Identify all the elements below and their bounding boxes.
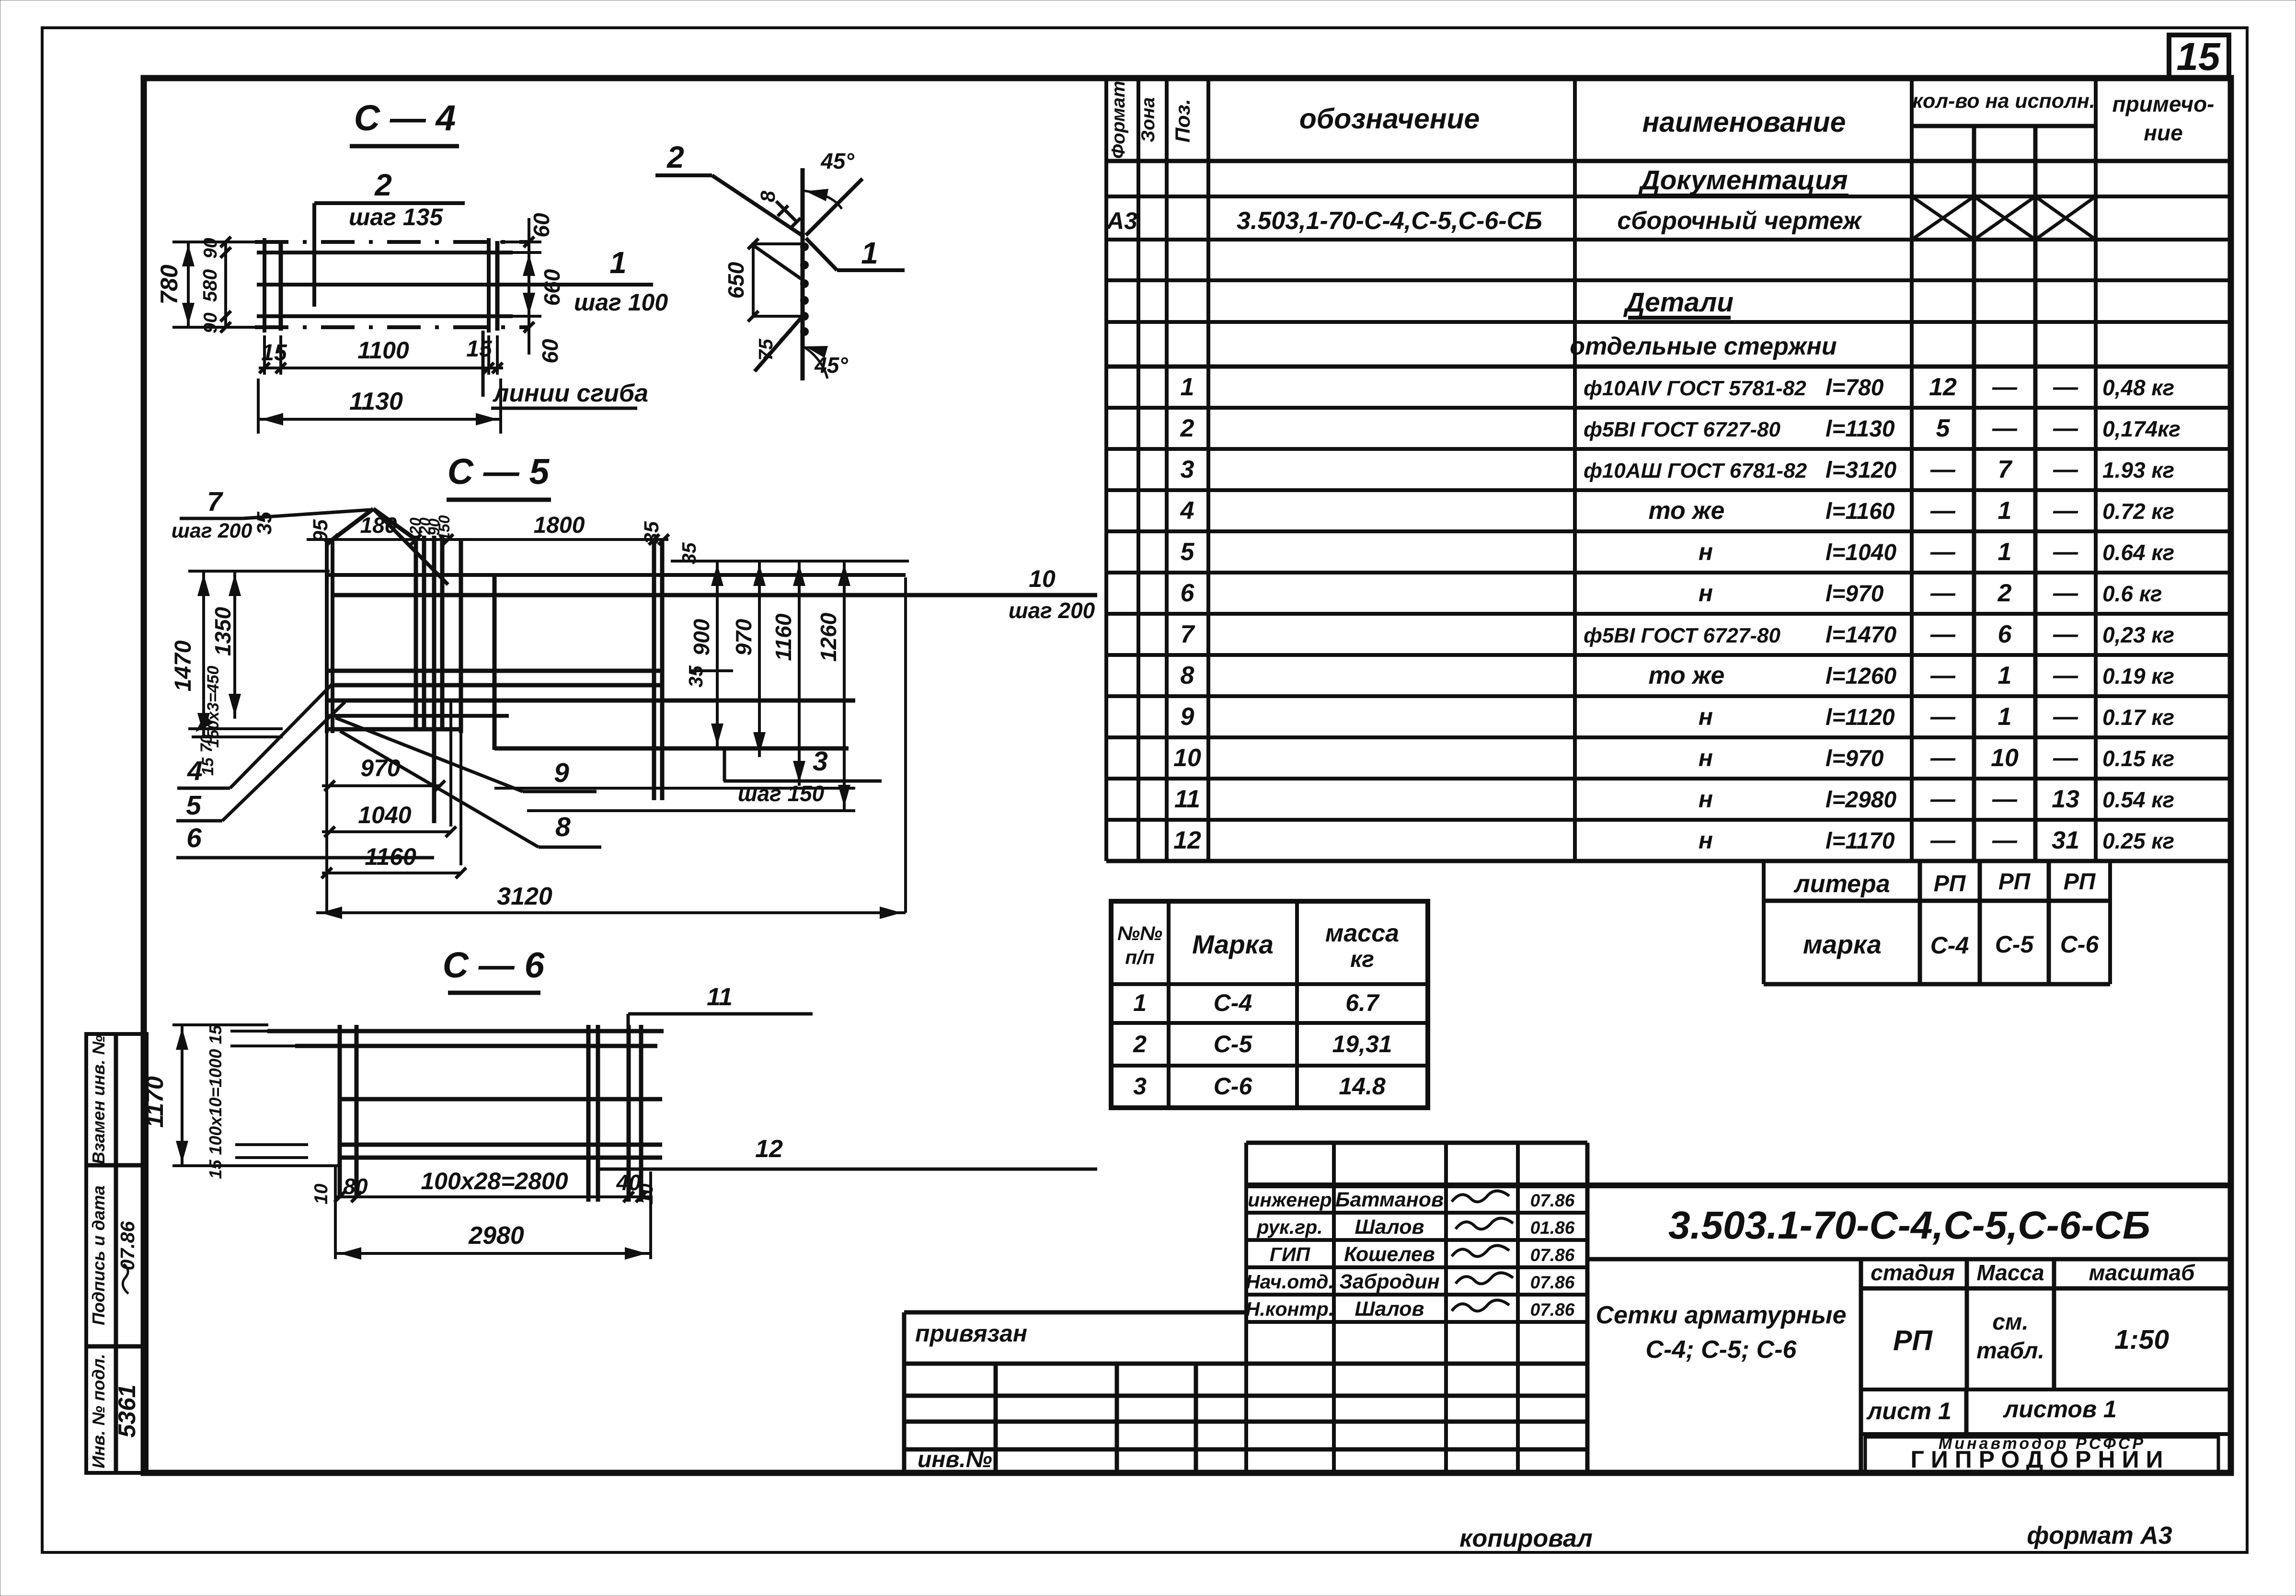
svg-text:3.503,1-70-С-4,С-5,С-6-СБ: 3.503,1-70-С-4,С-5,С-6-СБ <box>1237 207 1542 235</box>
svg-text:шаг 100: шаг 100 <box>574 289 668 316</box>
svg-text:отдельные стержни: отдельные стержни <box>1570 333 1837 360</box>
svg-text:780: 780 <box>156 264 183 305</box>
C-4 left dim chain 90-580-90 <box>224 242 227 327</box>
svg-text:90: 90 <box>200 312 221 333</box>
svg-text:—: — <box>2053 662 2078 689</box>
svg-text:1: 1 <box>1181 373 1194 401</box>
svg-text:Шалов: Шалов <box>1355 1297 1424 1320</box>
svg-text:0,48 кг: 0,48 кг <box>2102 375 2174 400</box>
svg-text:2: 2 <box>1180 414 1194 442</box>
svg-text:ф10АШ ГОСТ 6781-82: ф10АШ ГОСТ 6781-82 <box>1584 459 1807 482</box>
svg-text:l=970: l=970 <box>1825 746 1884 771</box>
organization box <box>1861 1432 2231 1436</box>
svg-text:1170: 1170 <box>141 1076 168 1128</box>
specification table grid <box>1104 78 1108 861</box>
svg-text:900: 900 <box>689 619 714 655</box>
C-4 mesh band: fold lines (dash-dot) <box>255 240 529 244</box>
svg-text:3: 3 <box>1181 456 1194 483</box>
svg-text:15: 15 <box>2176 35 2221 79</box>
svg-text:35: 35 <box>253 511 276 535</box>
svg-text:см.: см. <box>1992 1309 2029 1335</box>
svg-text:2980: 2980 <box>468 1222 524 1250</box>
svg-text:РП: РП <box>1934 871 1966 896</box>
svg-text:7: 7 <box>1181 620 1195 648</box>
title block top border <box>1246 1183 2231 1188</box>
svg-text:1: 1 <box>1998 703 2012 731</box>
svg-text:01.86: 01.86 <box>1530 1218 1575 1238</box>
svg-text:Детали: Детали <box>1623 287 1733 318</box>
svg-text:12: 12 <box>755 1135 783 1163</box>
svg-text:8: 8 <box>757 191 780 202</box>
svg-text:100х28=2800: 100х28=2800 <box>421 1168 568 1194</box>
C-6 left dim 1170 <box>172 1023 268 1026</box>
svg-text:сборочный чертеж: сборочный чертеж <box>1617 207 1862 235</box>
svg-text:1:50: 1:50 <box>2114 1324 2169 1355</box>
svg-text:l=1120: l=1120 <box>1825 705 1895 730</box>
C-6 bottom dim 2980 <box>334 1166 337 1259</box>
svg-text:ф5ВI ГОСТ 6727-80: ф5ВI ГОСТ 6727-80 <box>1584 624 1780 647</box>
svg-text:№№: №№ <box>1117 922 1162 944</box>
svg-text:—: — <box>2053 579 2078 607</box>
svg-text:Поз.: Поз. <box>1171 99 1194 142</box>
svg-text:—: — <box>1930 579 1956 607</box>
svg-text:0.15 кг: 0.15 кг <box>2102 746 2174 771</box>
svg-text:8: 8 <box>555 812 571 842</box>
C-5 right dim verticals 900 970 1160 1260 <box>671 560 909 563</box>
svg-text:11: 11 <box>707 983 733 1011</box>
svg-text:3120: 3120 <box>497 883 552 910</box>
svg-text:обозначение: обозначение <box>1299 103 1480 135</box>
svg-text:С-4: С-4 <box>1930 932 1969 959</box>
svg-text:—: — <box>2053 456 2078 483</box>
C-6 vertical bars <box>338 1025 342 1198</box>
svg-text:0,23 кг: 0,23 кг <box>2102 622 2174 647</box>
svg-text:литера: литера <box>1793 870 1890 898</box>
svg-text:—: — <box>2053 414 2078 442</box>
svg-text:2: 2 <box>374 168 392 202</box>
C-6 bottom dim row 1 <box>335 1195 651 1198</box>
svg-text:5361: 5361 <box>114 1384 140 1437</box>
svg-text:кол-во на исполн.: кол-во на исполн. <box>1912 90 2095 113</box>
svg-text:0.64 кг: 0.64 кг <box>2102 540 2174 565</box>
svg-text:н: н <box>1699 539 1713 565</box>
svg-text:l=970: l=970 <box>1825 581 1884 607</box>
svg-text:С — 5: С — 5 <box>448 451 550 492</box>
svg-text:—: — <box>1992 827 2018 854</box>
svg-text:10: 10 <box>1991 744 2019 772</box>
svg-text:8: 8 <box>1181 662 1194 689</box>
svg-text:Подпись и дата: Подпись и дата <box>89 1185 108 1325</box>
svg-text:1: 1 <box>1998 662 2012 689</box>
svg-text:С-4; С-5; С-6: С-4; С-5; С-6 <box>1646 1336 1797 1364</box>
svg-text:13: 13 <box>2052 785 2079 813</box>
svg-text:табл.: табл. <box>1976 1338 2044 1364</box>
svg-text:60: 60 <box>538 339 563 364</box>
C-4 right dim 60-660-60 <box>500 241 541 243</box>
svg-text:7: 7 <box>1998 456 2013 483</box>
svg-text:l=1470: l=1470 <box>1825 622 1896 648</box>
svg-text:наименование: наименование <box>1642 106 1846 138</box>
svg-text:п/п: п/п <box>1125 946 1154 968</box>
svg-text:35: 35 <box>685 665 707 688</box>
svg-text:0.72 кг: 0.72 кг <box>2102 499 2174 524</box>
svg-text:н: н <box>1699 786 1713 813</box>
svg-text:12: 12 <box>1929 373 1957 401</box>
svg-text:Забродин: Забродин <box>1339 1270 1440 1293</box>
svg-text:07.86: 07.86 <box>1530 1273 1575 1292</box>
svg-text:ф5ВI ГОСТ 6727-80: ф5ВI ГОСТ 6727-80 <box>1584 418 1780 441</box>
svg-text:45°: 45° <box>820 149 854 173</box>
svg-text:35: 35 <box>678 542 700 564</box>
svg-text:660: 660 <box>540 269 564 306</box>
lower-left grid of title block <box>904 1362 1587 1366</box>
svg-text:—: — <box>1992 414 2018 442</box>
svg-text:1: 1 <box>1998 497 2012 525</box>
svg-text:180: 180 <box>360 513 397 538</box>
svg-text:650: 650 <box>723 262 748 299</box>
svg-text:—: — <box>1930 662 1956 689</box>
C-4 leader 2 / shag 135 <box>314 201 465 205</box>
svg-text:6: 6 <box>186 823 202 853</box>
svg-text:Инв. № подл.: Инв. № подл. <box>89 1354 108 1468</box>
svg-text:лист 1: лист 1 <box>1866 1398 1952 1424</box>
svg-text:0,174кг: 0,174кг <box>2102 416 2181 441</box>
svg-text:Взамен инв. №: Взамен инв. № <box>89 1035 108 1164</box>
svg-text:l=1160: l=1160 <box>1825 499 1895 524</box>
svg-text:5: 5 <box>1936 414 1951 442</box>
svg-text:—: — <box>1992 785 2018 813</box>
svg-text:07.86: 07.86 <box>1530 1300 1575 1320</box>
svg-text:инв.№: инв.№ <box>918 1447 992 1472</box>
svg-text:95: 95 <box>309 519 332 542</box>
svg-text:l=1130: l=1130 <box>1825 416 1895 442</box>
svg-text:11: 11 <box>1174 785 1200 813</box>
svg-text:—: — <box>2053 538 2078 566</box>
svg-text:стадия: стадия <box>1871 1260 1955 1285</box>
signature table <box>1246 1141 1587 1145</box>
svg-text:07.86: 07.86 <box>116 1221 138 1271</box>
svg-text:н: н <box>1699 745 1713 771</box>
svg-text:90: 90 <box>200 238 221 259</box>
svg-text:Нач.отд.: Нач.отд. <box>1246 1271 1334 1293</box>
svg-text:15: 15 <box>466 336 493 362</box>
svg-text:формат А3: формат А3 <box>2027 1522 2172 1550</box>
svg-text:3: 3 <box>1133 1073 1147 1100</box>
svg-text:ГИП: ГИП <box>1270 1243 1311 1265</box>
svg-text:С — 4: С — 4 <box>354 98 456 138</box>
svg-text:07.86: 07.86 <box>1530 1245 1575 1265</box>
svg-text:С — 6: С — 6 <box>443 945 545 985</box>
svg-text:0.6 кг: 0.6 кг <box>2102 581 2162 606</box>
svg-text:—: — <box>2053 744 2078 772</box>
svg-text:примечо-: примечо- <box>2112 92 2215 116</box>
C-5 top triangle <box>333 509 373 540</box>
svg-text:ние: ние <box>2144 120 2182 145</box>
svg-text:3: 3 <box>813 746 828 777</box>
svg-text:l=1260: l=1260 <box>1825 664 1896 689</box>
designation cell <box>1587 1257 2231 1262</box>
svg-text:l=1170: l=1170 <box>1825 828 1895 854</box>
page number box 15 <box>2169 35 2229 79</box>
svg-text:—: — <box>1930 827 1956 854</box>
svg-text:—: — <box>2053 373 2078 401</box>
svg-text:то же: то же <box>1649 497 1725 525</box>
svg-text:12: 12 <box>1173 827 1201 854</box>
svg-text:Документация: Документация <box>1638 165 1848 195</box>
svg-text:—: — <box>2053 703 2078 731</box>
bend detail lower 45 deg <box>755 316 803 371</box>
svg-text:1160: 1160 <box>365 843 416 870</box>
C-4 cross bars <box>263 238 266 333</box>
svg-text:линии сгиба: линии сгиба <box>492 379 648 407</box>
C-5 top dimension line <box>307 538 668 541</box>
svg-text:Зона: Зона <box>1138 97 1159 142</box>
svg-text:0.19 кг: 0.19 кг <box>2102 664 2174 689</box>
C-5 vertical bars <box>325 540 329 733</box>
C-4 bottom dim 15-1100-15 <box>263 335 266 375</box>
svg-text:марка: марка <box>1803 930 1882 959</box>
svg-text:45°: 45° <box>814 353 848 378</box>
svg-text:РП: РП <box>2064 869 2096 895</box>
svg-text:—: — <box>1930 620 1956 648</box>
svg-text:580: 580 <box>199 269 221 302</box>
svg-text:1.93 кг: 1.93 кг <box>2102 458 2174 482</box>
svg-text:ф10АIV ГОСТ 5781-82: ф10АIV ГОСТ 5781-82 <box>1584 377 1806 400</box>
svg-text:листов 1: листов 1 <box>2003 1396 2117 1423</box>
svg-text:6: 6 <box>1181 579 1195 607</box>
svg-text:6: 6 <box>1998 620 2012 648</box>
C-5 left dims 1470 / 1350 <box>188 570 330 573</box>
svg-text:РП: РП <box>1893 1325 1933 1356</box>
svg-text:1160: 1160 <box>771 613 796 661</box>
svg-text:60: 60 <box>529 213 554 238</box>
svg-text:С-6: С-6 <box>1214 1073 1253 1100</box>
svg-text:10: 10 <box>311 1183 332 1205</box>
svg-text:l=1040: l=1040 <box>1825 540 1896 565</box>
svg-text:1260: 1260 <box>816 612 841 662</box>
svg-text:—: — <box>1930 456 1956 483</box>
litera-marka table <box>1762 861 1766 984</box>
svg-text:копировал: копировал <box>1459 1525 1593 1552</box>
svg-text:1470: 1470 <box>171 640 196 691</box>
bend detail section line <box>801 168 805 380</box>
svg-text:РП: РП <box>1998 869 2031 895</box>
svg-text:10: 10 <box>1173 744 1201 772</box>
svg-text:Батманов: Батманов <box>1335 1188 1444 1211</box>
svg-text:970: 970 <box>360 755 401 781</box>
svg-text:6.7: 6.7 <box>1345 989 1380 1016</box>
svg-text:масштаб: масштаб <box>2089 1260 2195 1285</box>
svg-text:1800: 1800 <box>534 513 585 538</box>
svg-text:5: 5 <box>186 790 202 821</box>
marka-massa table <box>1111 901 1428 1108</box>
svg-text:l=780: l=780 <box>1825 375 1884 401</box>
svg-text:0.17 кг: 0.17 кг <box>2102 705 2174 730</box>
stadia massa masshtab <box>1861 1286 2231 1291</box>
svg-text:—: — <box>1930 497 1956 525</box>
svg-text:Марка: Марка <box>1192 930 1274 959</box>
svg-text:1: 1 <box>861 236 878 270</box>
C-5 horizontal bars <box>327 573 906 577</box>
svg-text:970: 970 <box>731 619 756 655</box>
svg-text:15 100х10=1000 15: 15 100х10=1000 15 <box>206 1024 225 1179</box>
svg-text:рук.гр.: рук.гр. <box>1256 1216 1322 1238</box>
svg-text:1: 1 <box>1133 989 1147 1016</box>
svg-text:С-4: С-4 <box>1214 989 1252 1016</box>
svg-text:—: — <box>1992 373 2018 401</box>
svg-text:—: — <box>2053 497 2078 525</box>
svg-text:14.8: 14.8 <box>1339 1073 1386 1100</box>
svg-text:9: 9 <box>1181 703 1194 731</box>
svg-text:0.25 кг: 0.25 кг <box>2102 828 2174 853</box>
svg-text:5: 5 <box>1181 538 1195 566</box>
left margin stamp <box>86 1034 147 1473</box>
svg-text:С-5: С-5 <box>1214 1031 1253 1057</box>
svg-text:шаг 200: шаг 200 <box>172 519 253 542</box>
main drawing frame <box>144 78 2231 1473</box>
svg-text:—: — <box>1930 785 1956 813</box>
svg-text:4: 4 <box>1180 497 1194 525</box>
svg-text:15: 15 <box>261 340 287 366</box>
svg-text:инженер: инженер <box>1248 1189 1332 1211</box>
svg-text:то же: то же <box>1649 662 1725 689</box>
svg-text:ГИПРОДОРНИИ: ГИПРОДОРНИИ <box>1911 1446 2170 1473</box>
list row <box>1861 1388 2231 1391</box>
svg-text:1040: 1040 <box>358 802 411 828</box>
svg-text:2: 2 <box>1998 579 2012 607</box>
C-4 bottom dim 1130 <box>257 379 260 434</box>
C-4 label liniya sgiba <box>482 331 485 397</box>
svg-text:80: 80 <box>343 1174 368 1199</box>
svg-text:н: н <box>1699 580 1713 607</box>
svg-text:07.86: 07.86 <box>1530 1191 1575 1210</box>
svg-text:кг: кг <box>1350 947 1374 972</box>
privyazan cell <box>904 1310 1246 1315</box>
svg-text:10: 10 <box>636 1183 657 1205</box>
svg-text:А3: А3 <box>1106 207 1137 234</box>
C-5 dim extensions below <box>325 733 328 913</box>
svg-text:19,31: 19,31 <box>1332 1031 1392 1057</box>
svg-text:С-5: С-5 <box>1995 931 2034 958</box>
svg-text:Н.контр.: Н.контр. <box>1246 1298 1334 1320</box>
svg-text:Формат: Формат <box>1108 81 1129 159</box>
C-4 left dim 780 <box>172 241 259 243</box>
svg-text:н: н <box>1699 703 1713 730</box>
svg-text:привязан: привязан <box>915 1320 1027 1347</box>
C-4 longitudinal bars <box>257 251 513 254</box>
svg-text:Кошелев: Кошелев <box>1344 1243 1435 1266</box>
svg-text:—: — <box>2053 620 2078 648</box>
svg-text:l=3120: l=3120 <box>1825 458 1896 483</box>
svg-text:1: 1 <box>1998 538 2012 566</box>
bend detail upper 45 deg <box>806 179 862 235</box>
svg-text:Масса: Масса <box>1976 1260 2044 1285</box>
svg-text:1350: 1350 <box>210 607 235 656</box>
weld dots <box>800 242 809 251</box>
svg-text:2: 2 <box>1133 1031 1147 1057</box>
svg-text:Шалов: Шалов <box>1355 1216 1424 1239</box>
svg-text:Сетки арматурные: Сетки арматурные <box>1596 1301 1846 1329</box>
svg-text:2: 2 <box>666 140 684 174</box>
bend detail mesh section rect <box>753 244 803 316</box>
svg-text:шаг 150: шаг 150 <box>738 781 825 806</box>
C-6 horizontal bars <box>267 1029 664 1033</box>
svg-text:масса: масса <box>1325 919 1399 947</box>
svg-text:шаг 135: шаг 135 <box>349 204 443 230</box>
svg-text:35: 35 <box>640 521 663 544</box>
svg-text:1: 1 <box>609 245 627 280</box>
svg-text:шаг 200: шаг 200 <box>1009 598 1095 623</box>
svg-text:—: — <box>1930 538 1956 566</box>
svg-text:—: — <box>1930 744 1956 772</box>
drawing name cell <box>1859 1259 1863 1475</box>
svg-text:0.54 кг: 0.54 кг <box>2102 787 2174 812</box>
svg-text:3.503.1-70-С-4,С-5,С-6-СБ: 3.503.1-70-С-4,С-5,С-6-СБ <box>1668 1204 2150 1247</box>
svg-text:9: 9 <box>554 758 569 788</box>
svg-text:10: 10 <box>1029 565 1056 592</box>
svg-text:С-6: С-6 <box>2060 931 2100 958</box>
svg-text:7: 7 <box>207 486 223 517</box>
svg-text:l=2980: l=2980 <box>1825 787 1896 813</box>
svg-text:31: 31 <box>2052 827 2079 854</box>
svg-text:н: н <box>1699 827 1713 854</box>
svg-text:4: 4 <box>187 756 203 786</box>
svg-text:—: — <box>1930 703 1956 731</box>
svg-text:1100: 1100 <box>357 337 409 364</box>
svg-text:1130: 1130 <box>349 388 403 415</box>
